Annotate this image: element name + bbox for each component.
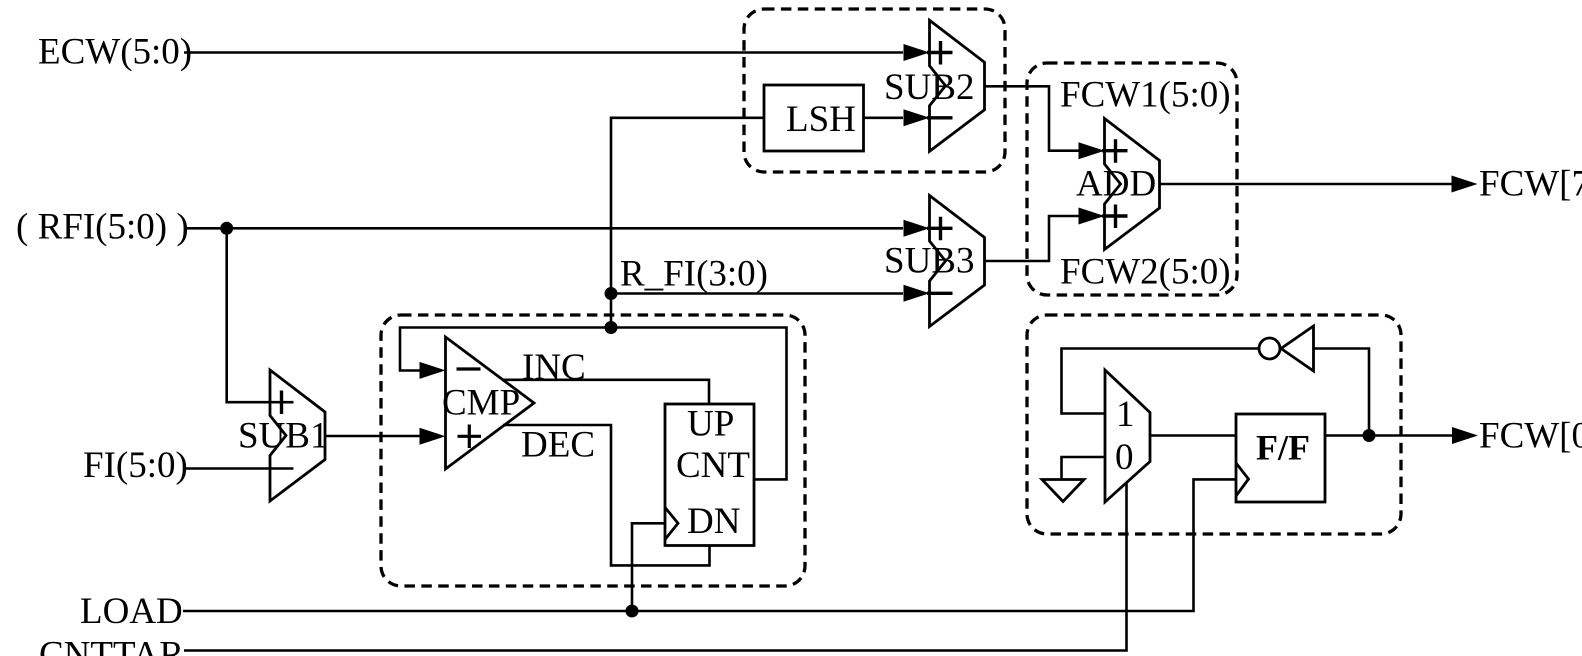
arrowhead into SUB3 plus input bbox=[904, 220, 930, 237]
arrowhead into ADD bottom plus input bbox=[1079, 208, 1105, 225]
wire R_FI vertical riser to LSH bbox=[611, 118, 764, 294]
svg-text:F/F: F/F bbox=[1256, 428, 1310, 468]
svg-text:ECW(5:0): ECW(5:0) bbox=[38, 32, 192, 73]
svg-text:1: 1 bbox=[1116, 394, 1135, 435]
svg-text:FCW2(5:0): FCW2(5:0) bbox=[1060, 252, 1231, 293]
inverter triangle bbox=[1281, 326, 1314, 371]
wire ECW(5:0) to SUB2 plus input bbox=[184, 51, 903, 54]
wire ADD output to FCW[7 bbox=[1160, 183, 1453, 186]
wire R_FI down to feedback net bbox=[610, 294, 613, 328]
plus sign SUB1 top input bbox=[280, 391, 283, 415]
arrowhead into SUB2 plus input bbox=[904, 44, 930, 61]
svg-text:DN: DN bbox=[687, 501, 740, 542]
subtractor SUB3 bbox=[930, 196, 985, 327]
minus sign SUB3 bottom input bbox=[927, 292, 953, 295]
wire ground to mux input 0 bbox=[1062, 457, 1106, 480]
wire SUB2 output to ADD (FCW1) bbox=[985, 86, 1080, 150]
wire LOAD rail bbox=[183, 479, 1236, 611]
svg-text:CNTTAR: CNTTAR bbox=[39, 635, 184, 656]
plus sign ADD top input bbox=[1102, 139, 1128, 163]
dashed group box toggle flip-flop bbox=[1027, 315, 1401, 534]
wire CNTTAR rail to mux select bbox=[184, 482, 1127, 651]
junction dot LOAD tap bbox=[626, 605, 639, 618]
plus sign SUB3 top input bbox=[927, 217, 953, 241]
arrowhead into SUB3 minus input bbox=[904, 285, 930, 302]
wire counter feedback to CMP minus input bbox=[400, 328, 787, 480]
svg-text:LSH: LSH bbox=[786, 99, 856, 140]
inverter bubble bbox=[1259, 338, 1280, 359]
svg-text:( RFI(5:0) ): ( RFI(5:0) ) bbox=[16, 207, 189, 248]
wire LSH output to SUB2 minus input bbox=[864, 117, 904, 120]
arrowhead into CMP minus input bbox=[420, 362, 446, 379]
arrowhead output FCW[7 bbox=[1452, 176, 1478, 193]
svg-text:INC: INC bbox=[522, 347, 586, 388]
svg-text:SUB2: SUB2 bbox=[884, 67, 974, 108]
arrowhead into ADD top plus input bbox=[1079, 142, 1105, 159]
comparator CMP bbox=[446, 337, 535, 469]
svg-text:ADD: ADD bbox=[1076, 164, 1156, 205]
arrowhead output FCW[0 bbox=[1452, 427, 1478, 444]
arrowhead into SUB2 minus input bbox=[904, 109, 930, 126]
svg-text:UP: UP bbox=[687, 404, 734, 445]
svg-text:DEC: DEC bbox=[521, 425, 595, 466]
svg-text:R_FI(3:0): R_FI(3:0) bbox=[620, 254, 768, 295]
junction dot R_FI tap bbox=[605, 287, 618, 300]
block LSH bbox=[764, 85, 864, 151]
plus sign CMP bottom input bbox=[458, 425, 482, 449]
dashed group box ADD bbox=[1027, 63, 1237, 295]
svg-text:FI(5:0): FI(5:0) bbox=[83, 445, 188, 486]
junction dot F/F output bbox=[1363, 429, 1376, 442]
adder ADD bbox=[1105, 119, 1160, 250]
wire mux output to F/F bbox=[1150, 434, 1236, 437]
svg-text:SUB1: SUB1 bbox=[238, 416, 328, 457]
svg-text:FCW[7: FCW[7 bbox=[1479, 164, 1582, 205]
wire RFI branch down to SUB1 plus input bbox=[227, 228, 294, 402]
wire INC to counter UP bbox=[502, 380, 709, 404]
dashed group box CMP/counter bbox=[381, 315, 805, 586]
wire RFI(5:0) to SUB3 plus input bbox=[184, 227, 903, 230]
mux 1/0 bbox=[1105, 370, 1150, 502]
ground symbol bbox=[1042, 480, 1084, 502]
minus sign CMP top input bbox=[457, 367, 481, 370]
wire R_FI(3:0) to SUB3 minus input bbox=[611, 292, 903, 295]
svg-text:0: 0 bbox=[1115, 437, 1134, 478]
wire FI(5:0) to SUB1 minus input bbox=[184, 467, 294, 470]
svg-text:FCW[0: FCW[0 bbox=[1479, 416, 1582, 457]
wire LOAD to counter clock bbox=[632, 523, 665, 611]
svg-text:SUB3: SUB3 bbox=[884, 241, 974, 282]
junction dot feedback tap bbox=[605, 321, 618, 334]
counter UP/DN CNT block bbox=[665, 404, 754, 546]
wire SUB3 output to ADD (FCW2) bbox=[985, 216, 1080, 261]
plus sign SUB2 top input bbox=[927, 41, 953, 65]
clock chevron on F/F input bbox=[1236, 463, 1249, 496]
wire DEC to counter DN side bbox=[503, 425, 710, 565]
dashed group box LSH/SUB2 bbox=[744, 9, 1005, 172]
clock chevron on counter DN input bbox=[665, 507, 678, 539]
minus sign SUB2 bottom input bbox=[927, 116, 953, 119]
svg-text:CMP: CMP bbox=[442, 383, 520, 424]
wire F/F output to FCW[0 bbox=[1325, 434, 1452, 437]
flip-flop F/F block bbox=[1236, 414, 1325, 502]
plus sign ADD bottom input bbox=[1102, 205, 1128, 229]
junction dot RFI branch bbox=[220, 222, 233, 235]
wire SUB1 output to CMP plus input bbox=[325, 435, 420, 438]
subtractor SUB2 bbox=[930, 20, 985, 151]
subtractor SUB1 bbox=[270, 370, 325, 501]
svg-text:LOAD: LOAD bbox=[80, 591, 183, 632]
arrowhead into CMP plus input bbox=[420, 428, 446, 445]
svg-text:CNT: CNT bbox=[676, 445, 750, 486]
wire F/F output feedback to inverter input bbox=[1314, 349, 1370, 436]
wire inverter output to mux input 1 bbox=[1062, 349, 1259, 414]
svg-text:FCW1(5:0): FCW1(5:0) bbox=[1060, 75, 1231, 116]
